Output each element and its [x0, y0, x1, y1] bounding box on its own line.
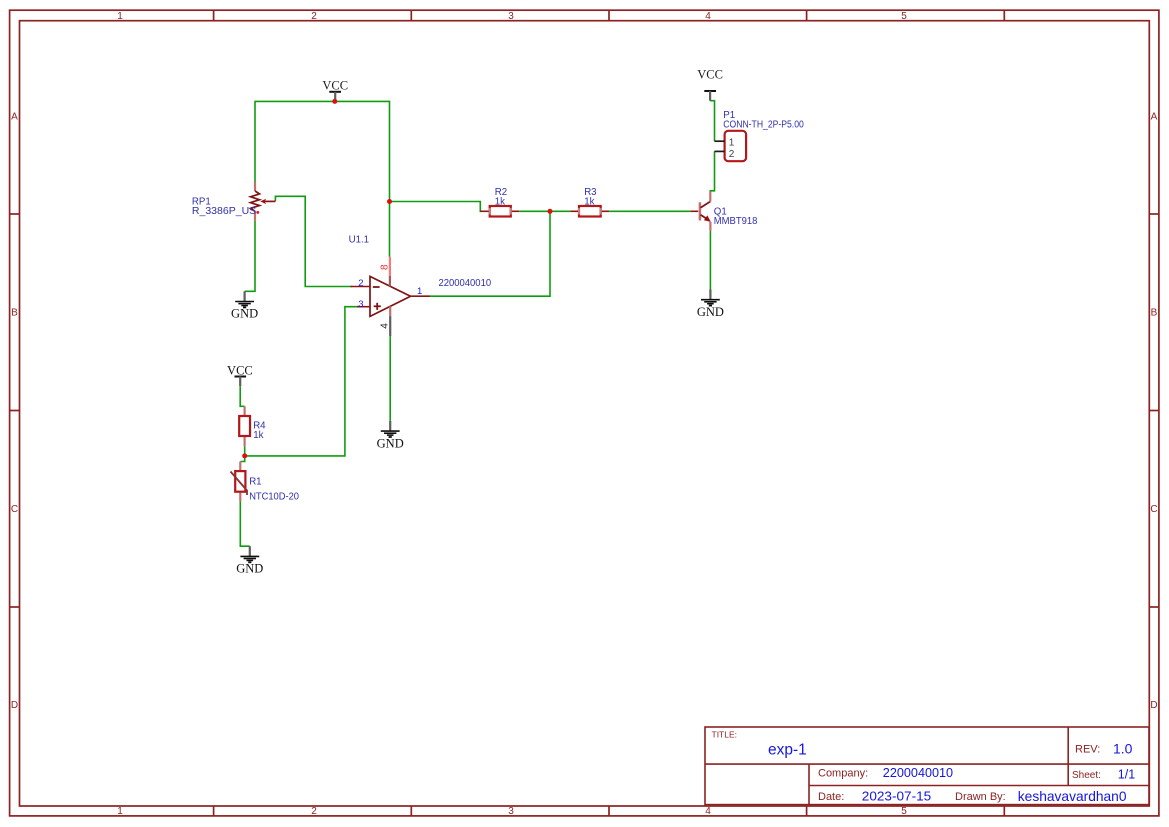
svg-text:Drawn By:: Drawn By: [955, 791, 1006, 803]
svg-text:2200040010: 2200040010 [883, 765, 953, 780]
svg-text:D: D [11, 700, 18, 711]
wire R3 to Q1 base [609, 210, 690, 212]
svg-text:2023-07-15: 2023-07-15 [862, 788, 931, 803]
svg-text:1.0: 1.0 [1113, 741, 1133, 757]
svg-text:A: A [1151, 112, 1158, 123]
svg-text:1: 1 [729, 138, 735, 149]
svg-text:B: B [1151, 308, 1158, 319]
svg-text:2200040010: 2200040010 [439, 278, 492, 289]
svg-text:R1: R1 [249, 477, 261, 488]
pin 2 [351, 286, 370, 288]
wire pot bottom to GND [245, 221, 255, 291]
op-amp minus input mark [373, 286, 380, 288]
svg-text:D: D [1150, 700, 1157, 711]
svg-text:2: 2 [358, 278, 363, 289]
svg-text:GND: GND [231, 307, 258, 321]
ground GND under Q1 [697, 290, 724, 319]
svg-text:1k: 1k [584, 196, 594, 207]
svg-text:2: 2 [729, 149, 735, 160]
wire VCC rail top: pot top to opamp V+ branch [255, 101, 390, 256]
wire R1 bottom to GND [240, 502, 250, 547]
svg-text:GND: GND [697, 305, 724, 319]
svg-text:GND: GND [377, 436, 404, 450]
pin 4 V- [389, 306, 391, 316]
svg-text:exp-1: exp-1 [768, 742, 807, 759]
svg-text:1: 1 [417, 286, 422, 297]
svg-text:1k: 1k [495, 196, 505, 207]
connector P1 [715, 110, 805, 161]
op-amp U1.1 [349, 235, 492, 337]
wire VCC bottom to R4 [240, 386, 244, 406]
VCC flag top [322, 78, 348, 101]
svg-text:B: B [11, 308, 18, 319]
svg-text:VCC: VCC [322, 78, 348, 92]
svg-text:Company:: Company: [818, 768, 868, 780]
svg-text:5: 5 [901, 806, 907, 817]
wire VCC right to P1 pin1 [710, 101, 714, 142]
pin 1 output [411, 295, 431, 297]
junction dot feedback node [548, 209, 553, 214]
svg-text:REV:: REV: [1075, 744, 1100, 756]
thermistor R1 [231, 462, 300, 503]
wire branch to R2 [390, 202, 482, 212]
svg-text:U1.1: U1.1 [349, 235, 369, 246]
wire opamp pin4 to GND [389, 336, 391, 421]
transistor Q1 [690, 192, 757, 231]
wire R4 bottom to junction to R1 [240, 446, 244, 461]
svg-text:2: 2 [311, 11, 317, 22]
svg-text:VCC: VCC [697, 68, 723, 82]
potentiometer RP1 [192, 182, 276, 221]
svg-text:3: 3 [508, 11, 514, 22]
op-amp plus input mark [374, 305, 381, 307]
svg-text:keshavavardhan0: keshavavardhan0 [1018, 788, 1127, 804]
wire R2 to R3 [519, 210, 570, 212]
svg-text:4: 4 [705, 806, 711, 817]
svg-text:MMBT918: MMBT918 [714, 216, 758, 227]
svg-text:2: 2 [311, 806, 317, 817]
svg-text:5: 5 [901, 11, 907, 22]
svg-text:8: 8 [380, 264, 391, 270]
junction dot R4/R1/pin3 node [242, 453, 247, 458]
junction dot VCC rail [332, 99, 337, 104]
wire pot wiper to opamp pin2 [275, 196, 352, 286]
svg-text:R_3386P_US: R_3386P_US [192, 206, 257, 217]
ground GND under RP1 [231, 291, 258, 320]
junction dot opamp V+ branch [387, 199, 392, 204]
svg-text:C: C [11, 504, 18, 515]
VCC flag right [697, 68, 723, 101]
resistor R2 [480, 187, 519, 217]
title block [705, 727, 1149, 805]
pin 3 [357, 306, 370, 308]
svg-text:Date:: Date: [818, 791, 844, 803]
svg-text:1: 1 [117, 806, 123, 817]
svg-text:GND: GND [236, 562, 263, 576]
svg-text:3: 3 [508, 806, 514, 817]
VCC flag bottom left [227, 364, 253, 387]
svg-text:1: 1 [117, 11, 123, 22]
wire opamp output feedback to R2-R3 node [430, 211, 551, 296]
svg-text:3: 3 [358, 299, 363, 310]
svg-text:VCC: VCC [227, 364, 253, 378]
svg-text:NTC10D-20: NTC10D-20 [249, 492, 299, 503]
ground GND under op-amp [377, 421, 404, 450]
svg-text:1k: 1k [253, 430, 263, 441]
resistor R3 [570, 187, 609, 217]
resistor R4 [239, 406, 266, 446]
svg-text:4: 4 [380, 323, 391, 329]
svg-text:CONN-TH_2P-P5.00: CONN-TH_2P-P5.00 [723, 120, 804, 131]
ground GND under R1 [236, 546, 263, 575]
svg-text:C: C [1150, 504, 1157, 515]
svg-text:4: 4 [705, 11, 711, 22]
pin 8 V+ [389, 257, 391, 276]
wire Q1 emitter to GND [709, 231, 711, 290]
wire opamp pin3 to R4/R1 junction [245, 307, 358, 456]
svg-text:1/1: 1/1 [1118, 768, 1135, 782]
wire P1 pin2 to Q1 collector [710, 151, 714, 191]
svg-text:Sheet:: Sheet: [1072, 770, 1101, 781]
svg-text:A: A [11, 112, 18, 123]
svg-text:TITLE:: TITLE: [712, 730, 738, 740]
